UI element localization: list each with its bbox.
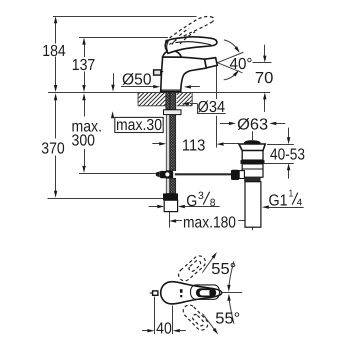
- threaded shank through deck: [166, 92, 176, 109]
- svg-text:Ø63: Ø63: [237, 116, 268, 133]
- dimension 184: [42, 16, 66, 92]
- cartridge dome / neck: [163, 50, 182, 57]
- svg-text:300: 300: [72, 133, 96, 150]
- drain centerline: [252, 131, 254, 230]
- top view centerline right: [222, 292, 243, 294]
- mounting nut under deck: [164, 110, 182, 115]
- faucet body (side view): [160, 57, 206, 92]
- top view: dashed handle position lower: [181, 302, 211, 332]
- svg-text:40°: 40°: [230, 56, 253, 73]
- dimension max.180: [169, 212, 252, 232]
- drain locknut: [242, 164, 263, 177]
- svg-text:55°: 55°: [211, 261, 236, 278]
- drain gasket: [241, 160, 265, 164]
- label Ø50: [121, 72, 200, 89]
- spout tip extension line: [216, 65, 218, 148]
- dimension 40-53: [265, 128, 306, 179]
- top view: cartridge mark: [180, 289, 183, 297]
- svg-text:4: 4: [297, 198, 303, 209]
- dimension 137: [72, 38, 96, 92]
- svg-text:40: 40: [156, 321, 172, 338]
- svg-text:55°: 55°: [215, 311, 240, 328]
- dimension 55 degrees lower: [202, 294, 240, 335]
- reference line 370 bottom: [48, 198, 168, 200]
- top view: dashed handle position upper: [176, 253, 208, 283]
- label G1 1/4: [262, 189, 304, 210]
- label G 3/8: [149, 190, 220, 210]
- dimension 40 (top view): [142, 297, 186, 338]
- reference line handle level (137): [79, 37, 168, 39]
- svg-text:370: 370: [41, 141, 65, 158]
- deck surface line: [48, 92, 270, 94]
- dimension 113: [152, 138, 239, 155]
- drain plug cap: [244, 140, 261, 144]
- dimension max.30 arrows: [111, 73, 115, 118]
- svg-text:8: 8: [210, 197, 216, 209]
- svg-text:184: 184: [42, 43, 66, 60]
- dashed raised handle (side view): [165, 16, 214, 44]
- pop-up rod knuckle at drain: [231, 170, 244, 180]
- dimension 55 degrees upper: [202, 252, 236, 292]
- drain body: [242, 151, 263, 161]
- lever handle (side view): [165, 37, 217, 54]
- reference line top (184 level): [53, 16, 197, 18]
- pop-up knob (side view): [154, 70, 164, 75]
- svg-text:3: 3: [198, 190, 204, 202]
- max.30 label box: [115, 117, 163, 134]
- svg-text:40-53: 40-53: [270, 147, 305, 164]
- label Ø34: [182, 99, 226, 116]
- faucet supply hose (braided): [170, 92, 176, 171]
- aerator box: [205, 58, 218, 68]
- svg-text:max.30: max.30: [116, 117, 162, 134]
- G 3/8 supply pipe: [164, 200, 177, 211]
- drain lower band: [244, 177, 260, 182]
- svg-text:max.180: max.180: [183, 214, 236, 231]
- top view: faucet body: [161, 282, 222, 304]
- drain tailpipe: [245, 182, 261, 228]
- dimension 40 degrees spray cone: [217, 40, 252, 80]
- lower hose segment: [166, 178, 175, 193]
- svg-text:G: G: [186, 193, 197, 210]
- faucet shank rod: [166, 92, 169, 171]
- pop-up rod junction: [156, 171, 173, 178]
- dimension 70: [253, 45, 274, 112]
- top view: pop-up knob: [150, 291, 158, 295]
- svg-text:G1: G1: [269, 193, 288, 210]
- svg-text:70: 70: [255, 70, 274, 87]
- dimension max.300: [72, 93, 103, 173]
- drain flange: [239, 144, 265, 151]
- dimension 370: [41, 93, 65, 198]
- horizontal pop-up rod: [175, 173, 231, 175]
- deck hatching right: [177, 93, 192, 106]
- svg-text:137: 137: [72, 57, 96, 74]
- dimension Ø63: [220, 116, 285, 133]
- G 3/8 hose nut: [163, 193, 178, 200]
- svg-text:1: 1: [289, 189, 294, 200]
- svg-text:113: 113: [182, 138, 206, 155]
- reference line max.300 bottom: [79, 173, 160, 175]
- deck hatching left: [138, 93, 166, 106]
- top view: handle loop: [196, 288, 216, 297]
